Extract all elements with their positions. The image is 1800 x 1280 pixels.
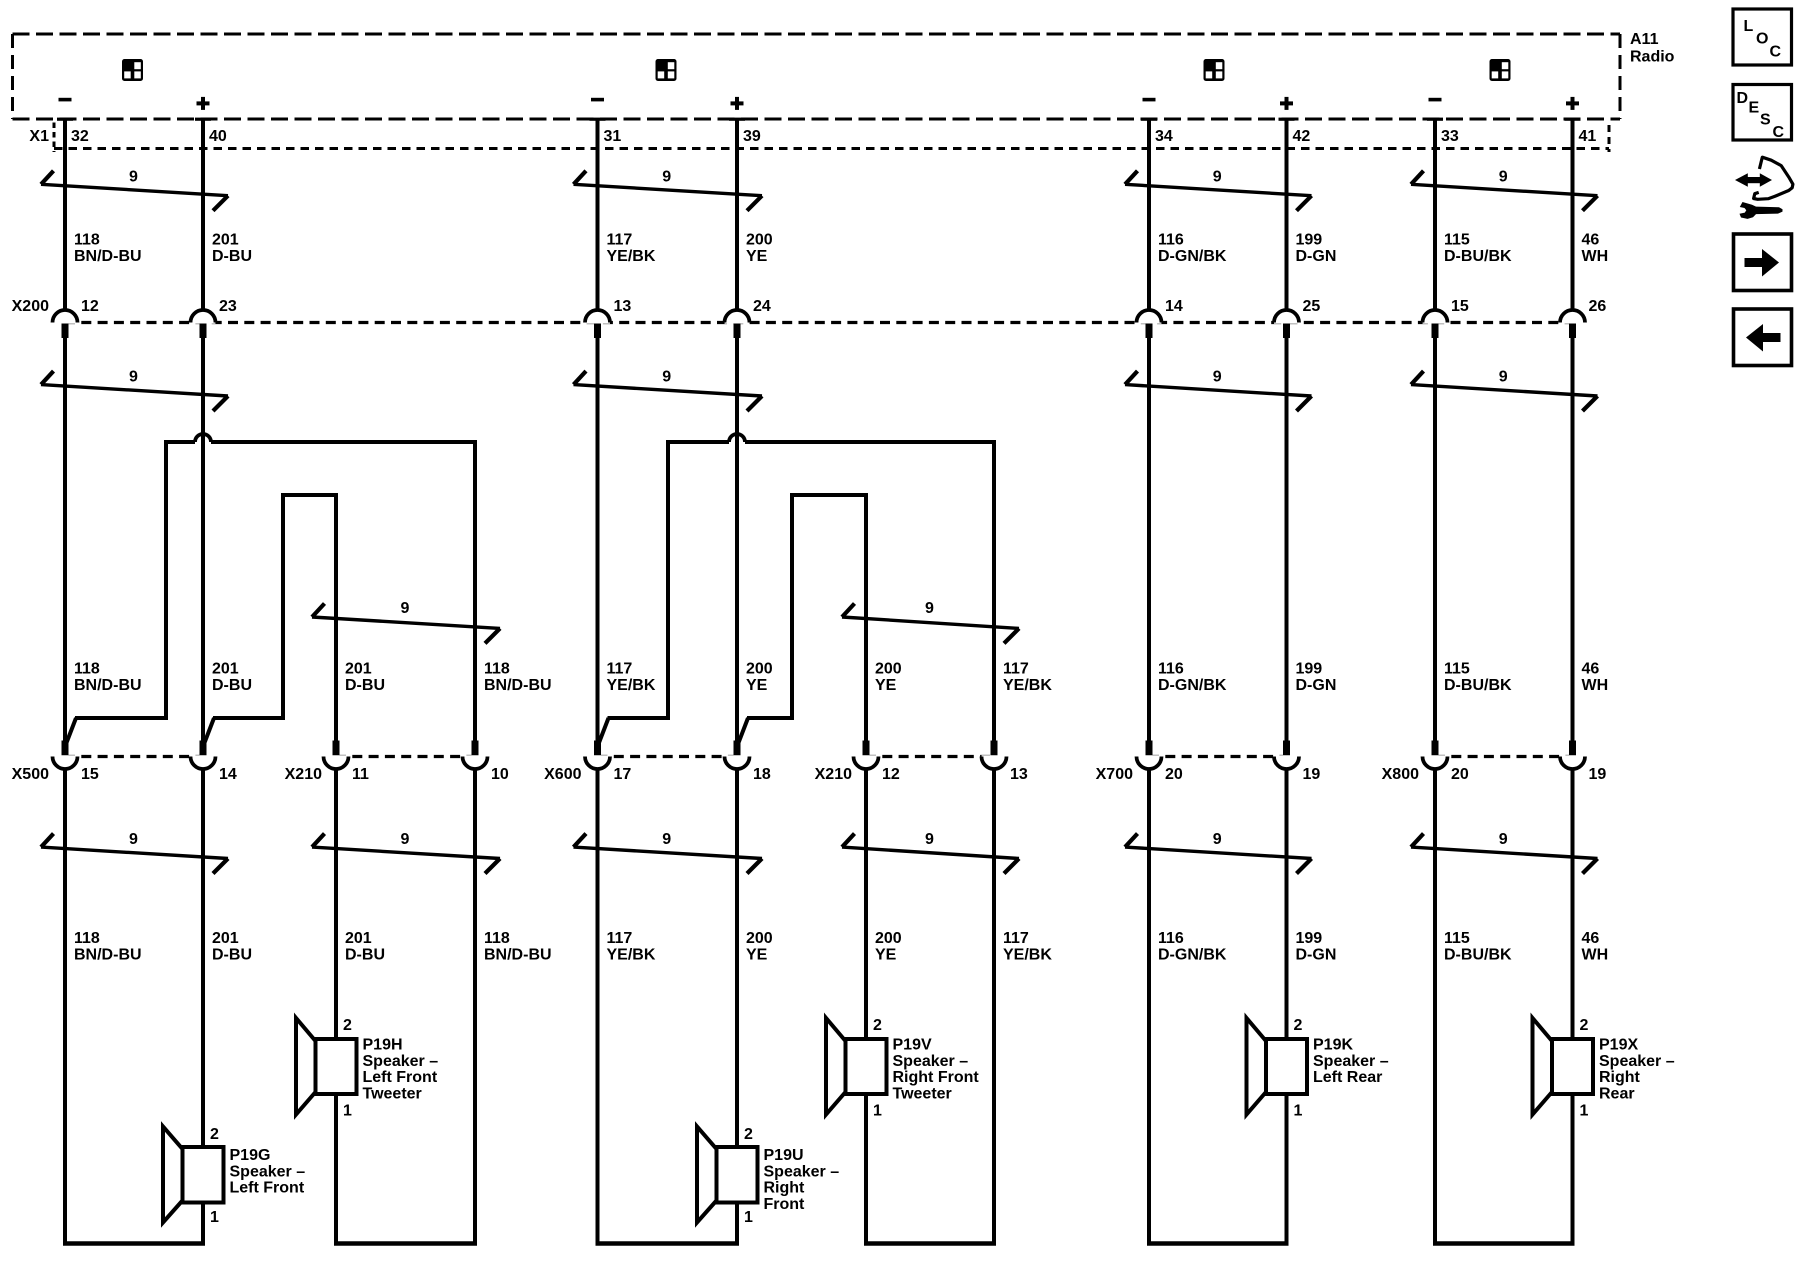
svg-text:117: 117 <box>607 930 633 947</box>
twisted pair symbol 9 (group 2, bottom) <box>574 831 763 874</box>
wire 201 D-BU (below connector, col x=336) <box>334 769 338 1244</box>
X200 pin 13 (terminal arc + pin) <box>585 298 631 338</box>
wire label 200 YE (bottom) <box>746 930 773 964</box>
svg-text:40: 40 <box>209 128 227 145</box>
svg-text:Speaker –: Speaker – <box>893 1053 969 1070</box>
svg-text:P19U: P19U <box>764 1147 804 1164</box>
svg-text:X500: X500 <box>12 766 49 783</box>
X200 pin 12 (terminal arc + pin) <box>53 298 99 338</box>
svg-text:24: 24 <box>753 298 771 315</box>
svg-text:YE/BK: YE/BK <box>1003 677 1052 694</box>
polarity plus group 2 <box>731 97 744 110</box>
svg-text:33: 33 <box>1441 128 1459 145</box>
svg-text:115: 115 <box>1444 232 1470 249</box>
svg-text:Right Front: Right Front <box>893 1069 980 1086</box>
wire 117 YE/BK from X200 to X600-17 <box>596 338 600 741</box>
wire bottom return (group 3) <box>1147 1241 1289 1246</box>
wire 116 D-GN/BK from X1-34 to X200 <box>1147 119 1151 312</box>
svg-text:9: 9 <box>662 831 671 848</box>
svg-text:200: 200 <box>746 661 773 678</box>
wire bottom return (X210 pair group 1) <box>334 1241 477 1246</box>
wire bottom return (X210 pair group 2) <box>864 1241 996 1246</box>
X1 pin 39 <box>729 118 761 145</box>
connector X700 (dotted line) <box>1149 755 1287 758</box>
label X200 <box>12 298 49 315</box>
label X700 <box>1096 766 1133 783</box>
wire label 117 YE/BK (middle) <box>1003 661 1052 695</box>
svg-text:X700: X700 <box>1096 766 1133 783</box>
twisted pair symbol 9 (X210 pair group 2, bottom) <box>842 831 1019 874</box>
svg-text:201: 201 <box>212 930 239 947</box>
svg-text:118: 118 <box>74 930 100 947</box>
svg-text:2: 2 <box>1294 1017 1303 1034</box>
svg-text:Radio: Radio <box>1630 49 1675 66</box>
svg-text:11: 11 <box>352 766 369 783</box>
svg-text:1: 1 <box>1294 1103 1303 1120</box>
twisted pair symbol 9 (X210 branch pair group 1) <box>312 600 500 643</box>
twisted pair symbol 9 (group 4, upper) <box>1411 169 1598 211</box>
svg-text:WH: WH <box>1582 947 1609 964</box>
branch wire 118 BN/D-BU to X210-10 (riser + crossover) <box>66 434 475 744</box>
X800 pin 20 (pin + terminal arc) <box>1423 741 1469 784</box>
svg-text:YE: YE <box>746 947 768 964</box>
svg-text:D-BU: D-BU <box>212 677 252 694</box>
svg-text:9: 9 <box>1213 831 1222 848</box>
wire label 118 BN/D-BU <box>74 232 142 266</box>
polarity plus group 3 <box>1280 97 1293 110</box>
twisted pair symbol 9 (group 1, bottom) <box>41 831 228 874</box>
svg-text:Left Rear: Left Rear <box>1313 1069 1382 1086</box>
X210 pin 10 (pin + terminal arc) <box>463 741 509 784</box>
twisted pair symbol 9 (group 3, upper) <box>1125 169 1312 211</box>
branch wire 200 YE to X210-12 (n-shape) <box>738 493 868 744</box>
svg-text:YE: YE <box>875 677 897 694</box>
svg-text:YE: YE <box>746 677 768 694</box>
X200 pin 23 (terminal arc + pin) <box>191 298 237 338</box>
polarity minus group 1 <box>59 98 72 102</box>
svg-text:P19K: P19K <box>1313 1037 1353 1054</box>
wire 201 D-BU from X200 to X500-14 <box>201 338 205 741</box>
connector X600 (dotted line) <box>598 755 738 758</box>
X1 pin 40 <box>195 118 227 145</box>
svg-text:20: 20 <box>1165 766 1183 783</box>
svg-text:20: 20 <box>1451 766 1469 783</box>
X200 pin 25 (terminal arc + pin) <box>1274 298 1320 338</box>
wire label 201 D-BU (middle) <box>345 661 385 695</box>
wire 115 D-BU/BK (below connector, col x=1435) <box>1433 769 1437 1244</box>
svg-text:200: 200 <box>746 232 773 249</box>
svg-text:15: 15 <box>81 766 99 783</box>
svg-text:E: E <box>1749 100 1760 117</box>
wire label 200 YE (middle) <box>746 661 773 695</box>
wire label 201 D-BU <box>212 232 252 266</box>
wire label 115 D-BU/BK (bottom) <box>1444 930 1512 964</box>
svg-text:2: 2 <box>210 1126 219 1143</box>
polarity plus group 4 <box>1566 97 1579 110</box>
svg-text:X210: X210 <box>285 766 322 783</box>
wire 46 WH from X200 to X800-19 <box>1571 338 1575 741</box>
wire 118 BN/D-BU (below connector, col x=475) <box>473 769 477 1244</box>
polarity minus group 4 <box>1429 98 1442 102</box>
wire 200 YE from X200 to X600-18 <box>735 338 739 741</box>
wire 118 BN/D-BU (below connector, col x=65) <box>63 769 67 1244</box>
svg-text:Tweeter: Tweeter <box>363 1085 422 1102</box>
wire label 200 YE <box>746 232 773 266</box>
wire label 115 D-BU/BK (middle) <box>1444 661 1512 695</box>
speaker quadrant icon group 2 <box>656 59 677 81</box>
svg-text:12: 12 <box>882 766 900 783</box>
svg-text:A11: A11 <box>1630 31 1659 48</box>
svg-text:C: C <box>1770 44 1782 61</box>
wire label 46 WH <box>1582 232 1609 266</box>
wire 200 YE from X1-39 to X200 <box>735 119 739 312</box>
svg-text:BN/D-BU: BN/D-BU <box>74 947 142 964</box>
wire bottom return (group 4) <box>1433 1241 1575 1246</box>
speaker P19U Speaker – Right Front <box>697 1126 839 1226</box>
svg-text:117: 117 <box>1003 661 1029 678</box>
connector X1 (dotted strip) <box>54 123 1609 153</box>
svg-text:P19H: P19H <box>363 1037 403 1054</box>
svg-text:Front: Front <box>764 1196 806 1213</box>
svg-text:200: 200 <box>875 930 902 947</box>
wire 46 WH from X1-41 to X200 <box>1571 119 1575 312</box>
wire 201 D-BU from X1-40 to X200 <box>201 119 205 312</box>
svg-text:2: 2 <box>873 1017 882 1034</box>
svg-text:1: 1 <box>873 1103 882 1120</box>
connector X210 (dotted line) <box>336 755 475 758</box>
X600 pin 17 (pin + terminal arc) <box>585 741 631 784</box>
speaker P19X Speaker – Right Rear <box>1533 1017 1675 1120</box>
svg-text:P19G: P19G <box>230 1147 271 1164</box>
label X210 <box>285 766 322 783</box>
svg-text:D-BU: D-BU <box>345 947 385 964</box>
X1 pin 34 <box>1141 118 1173 145</box>
svg-text:L: L <box>1744 18 1754 35</box>
wire label 118 BN/D-BU (middle) <box>484 661 552 695</box>
wire label 118 BN/D-BU (bottom) <box>484 930 552 964</box>
svg-text:46: 46 <box>1582 930 1600 947</box>
wire 115 D-BU/BK from X200 to X800-20 <box>1433 338 1437 741</box>
label A11 Radio <box>1630 31 1675 66</box>
wire 116 D-GN/BK from X200 to X700-20 <box>1147 338 1151 741</box>
wire label 117 YE/BK (middle) <box>607 661 656 695</box>
svg-text:9: 9 <box>925 600 934 617</box>
wire 118 BN/D-BU from X1-32 to X200 <box>63 119 67 312</box>
svg-text:199: 199 <box>1296 661 1323 678</box>
svg-text:9: 9 <box>925 831 934 848</box>
label X210 <box>815 766 852 783</box>
svg-text:D: D <box>1737 90 1749 107</box>
svg-text:12: 12 <box>81 298 99 315</box>
svg-text:X1: X1 <box>29 128 49 145</box>
svg-text:9: 9 <box>129 369 138 386</box>
svg-text:201: 201 <box>212 661 239 678</box>
svg-text:118: 118 <box>484 930 510 947</box>
icon button arrow left <box>1734 309 1792 366</box>
svg-text:10: 10 <box>491 766 509 783</box>
svg-text:X200: X200 <box>12 298 49 315</box>
X1 pin 33 <box>1427 118 1459 145</box>
svg-text:YE/BK: YE/BK <box>607 677 656 694</box>
twisted pair symbol 9 (group 1, upper) <box>41 169 228 211</box>
component box A11 Radio (dashed outline) <box>13 34 1621 119</box>
speaker quadrant icon group 3 <box>1204 59 1225 81</box>
svg-text:Speaker –: Speaker – <box>764 1163 840 1180</box>
twisted pair symbol 9 (X210 branch pair group 2) <box>842 600 1019 643</box>
wire label 201 D-BU (middle) <box>212 661 252 695</box>
svg-text:26: 26 <box>1589 298 1607 315</box>
svg-text:14: 14 <box>219 766 237 783</box>
wire label 116 D-GN/BK (middle) <box>1158 661 1227 695</box>
svg-text:YE: YE <box>875 947 897 964</box>
connector X500 (dotted line) <box>65 755 203 758</box>
svg-text:YE/BK: YE/BK <box>607 248 656 265</box>
svg-text:D-GN/BK: D-GN/BK <box>1158 947 1227 964</box>
svg-text:Right: Right <box>764 1180 806 1197</box>
X200 pin 24 (terminal arc + pin) <box>725 298 771 338</box>
svg-text:9: 9 <box>1499 169 1508 186</box>
svg-text:9: 9 <box>1499 831 1508 848</box>
svg-text:32: 32 <box>71 128 89 145</box>
svg-text:Tweeter: Tweeter <box>893 1085 952 1102</box>
svg-text:116: 116 <box>1158 930 1184 947</box>
svg-text:9: 9 <box>129 831 138 848</box>
svg-text:9: 9 <box>1499 369 1508 386</box>
icon adjust (double arrow with freehand outline) <box>1735 157 1793 199</box>
svg-text:2: 2 <box>1580 1017 1589 1034</box>
wire bottom return (group 1) <box>63 1241 205 1246</box>
svg-text:18: 18 <box>753 766 771 783</box>
svg-text:201: 201 <box>212 232 239 249</box>
svg-text:2: 2 <box>343 1017 352 1034</box>
twisted pair symbol 9 (group 3, middle) <box>1125 369 1312 412</box>
svg-text:D-BU/BK: D-BU/BK <box>1444 677 1512 694</box>
svg-text:25: 25 <box>1303 298 1321 315</box>
wire 201 D-BU (below connector, col x=203) <box>201 769 205 1244</box>
twisted pair symbol 9 (group 2, upper) <box>574 169 763 211</box>
icon wrench <box>1740 202 1783 219</box>
svg-text:WH: WH <box>1582 677 1609 694</box>
X600 pin 18 (pin + terminal arc) <box>725 741 771 784</box>
icon button LOC <box>1733 9 1792 65</box>
wire label 200 YE (bottom) <box>875 930 902 964</box>
X210 pin 13 (pin + terminal arc) <box>982 741 1028 784</box>
wire label 199 D-GN (middle) <box>1296 661 1337 695</box>
connector X800 (dotted line) <box>1435 755 1573 758</box>
svg-text:117: 117 <box>607 232 633 249</box>
svg-text:200: 200 <box>875 661 902 678</box>
twisted pair symbol 9 (group 4, middle) <box>1411 369 1598 412</box>
wire bottom return (group 2) <box>596 1241 740 1246</box>
wire 115 D-BU/BK from X1-33 to X200 <box>1433 119 1437 312</box>
wire 116 D-GN/BK (below connector, col x=1149) <box>1147 769 1151 1244</box>
X200 pin 14 (terminal arc + pin) <box>1137 298 1183 338</box>
svg-text:118: 118 <box>484 661 510 678</box>
wire label 118 BN/D-BU (middle) <box>74 661 142 695</box>
wire 199 D-GN (below connector, col x=1286.5) <box>1285 769 1289 1244</box>
svg-text:D-BU/BK: D-BU/BK <box>1444 248 1512 265</box>
svg-text:39: 39 <box>743 128 761 145</box>
wire label 118 BN/D-BU (bottom) <box>74 930 142 964</box>
svg-text:YE/BK: YE/BK <box>607 947 656 964</box>
wire label 117 YE/BK (bottom) <box>1003 930 1052 964</box>
svg-text:D-GN: D-GN <box>1296 248 1337 265</box>
svg-text:116: 116 <box>1158 232 1184 249</box>
wire label 46 WH (middle) <box>1582 661 1609 695</box>
svg-text:9: 9 <box>1213 369 1222 386</box>
wire 199 D-GN from X1-42 to X200 <box>1285 119 1289 312</box>
speaker quadrant icon group 1 <box>122 59 143 81</box>
svg-text:117: 117 <box>607 661 633 678</box>
svg-text:Left Front: Left Front <box>230 1180 305 1197</box>
X210 pin 12 (pin + terminal arc) <box>854 741 900 784</box>
connector X200 (dotted line) <box>65 321 1573 324</box>
svg-text:D-BU: D-BU <box>212 248 252 265</box>
svg-text:1: 1 <box>343 1103 352 1120</box>
wire label 46 WH (bottom) <box>1582 930 1609 964</box>
twisted pair symbol 9 (group 1, middle) <box>41 369 228 412</box>
branch wire 117 YE/BK to X210-13 (riser + crossover) <box>599 434 995 744</box>
svg-text:D-GN/BK: D-GN/BK <box>1158 677 1227 694</box>
X700 pin 20 (pin + terminal arc) <box>1137 741 1183 784</box>
svg-text:13: 13 <box>614 298 632 315</box>
svg-text:9: 9 <box>129 169 138 186</box>
svg-text:BN/D-BU: BN/D-BU <box>74 248 142 265</box>
wire label 201 D-BU (bottom) <box>212 930 252 964</box>
svg-text:201: 201 <box>345 661 372 678</box>
X1 pin 42 <box>1279 118 1311 145</box>
wire label 115 D-BU/BK <box>1444 232 1512 266</box>
wire label 117 YE/BK (bottom) <box>607 930 656 964</box>
svg-text:41: 41 <box>1579 128 1597 145</box>
svg-text:199: 199 <box>1296 930 1323 947</box>
polarity minus group 3 <box>1143 98 1156 102</box>
svg-text:Left Front: Left Front <box>363 1069 438 1086</box>
svg-text:Speaker –: Speaker – <box>1313 1053 1389 1070</box>
wire label 116 D-GN/BK (bottom) <box>1158 930 1227 964</box>
X500 pin 14 (pin + terminal arc) <box>191 741 237 784</box>
svg-text:42: 42 <box>1293 128 1311 145</box>
svg-text:BN/D-BU: BN/D-BU <box>74 677 142 694</box>
svg-text:9: 9 <box>662 169 671 186</box>
speaker quadrant icon group 4 <box>1490 59 1511 81</box>
svg-text:1: 1 <box>1580 1103 1589 1120</box>
svg-text:118: 118 <box>74 661 100 678</box>
svg-text:D-GN/BK: D-GN/BK <box>1158 248 1227 265</box>
svg-text:200: 200 <box>746 930 773 947</box>
svg-text:1: 1 <box>210 1209 219 1226</box>
svg-text:115: 115 <box>1444 930 1470 947</box>
label X600 <box>544 766 581 783</box>
wire 117 YE/BK from X1-31 to X200 <box>596 119 600 312</box>
svg-text:118: 118 <box>74 232 100 249</box>
svg-text:X600: X600 <box>544 766 581 783</box>
svg-text:116: 116 <box>1158 661 1184 678</box>
twisted pair symbol 9 (X210 pair group 1, bottom) <box>312 831 500 874</box>
svg-text:1: 1 <box>744 1209 753 1226</box>
X200 pin 15 (terminal arc + pin) <box>1423 298 1469 338</box>
label X500 <box>12 766 49 783</box>
wire 200 YE (below connector, col x=866) <box>864 769 868 1244</box>
branch wire 201 D-BU to X210-11 (n-shape) <box>204 493 338 744</box>
connector X210 (dotted line) <box>866 755 994 758</box>
svg-text:O: O <box>1756 31 1768 48</box>
polarity minus group 2 <box>591 98 604 102</box>
svg-text:34: 34 <box>1155 128 1173 145</box>
svg-text:D-BU: D-BU <box>345 677 385 694</box>
wire 118 BN/D-BU from X200 to X500-15 <box>63 338 67 741</box>
svg-text:117: 117 <box>1003 930 1029 947</box>
wire 46 WH (below connector, col x=1572.5) <box>1571 769 1575 1244</box>
svg-text:Speaker –: Speaker – <box>1599 1053 1675 1070</box>
label X800 <box>1382 766 1419 783</box>
svg-text:X210: X210 <box>815 766 852 783</box>
wire 199 D-GN from X200 to X700-19 <box>1285 338 1289 741</box>
svg-text:D-GN: D-GN <box>1296 677 1337 694</box>
X210 pin 11 (pin + terminal arc) <box>324 741 370 784</box>
wire label 201 D-BU (bottom) <box>345 930 385 964</box>
speaker P19H Speaker – Left Front Tweeter <box>296 1017 438 1120</box>
svg-text:D-BU/BK: D-BU/BK <box>1444 947 1512 964</box>
wire 117 YE/BK (below connector, col x=597.5) <box>596 769 600 1244</box>
speaker P19G Speaker – Left Front <box>163 1126 305 1226</box>
svg-text:X800: X800 <box>1382 766 1419 783</box>
svg-text:Speaker –: Speaker – <box>363 1053 439 1070</box>
svg-text:19: 19 <box>1303 766 1321 783</box>
twisted pair symbol 9 (group 2, middle) <box>574 369 763 412</box>
twisted pair symbol 9 (group 4, bottom) <box>1411 831 1598 874</box>
svg-text:199: 199 <box>1296 232 1323 249</box>
svg-text:Speaker –: Speaker – <box>230 1163 306 1180</box>
svg-text:9: 9 <box>1213 169 1222 186</box>
wire label 199 D-GN <box>1296 232 1337 266</box>
polarity plus group 1 <box>197 97 210 110</box>
svg-text:15: 15 <box>1451 298 1469 315</box>
wire label 199 D-GN (bottom) <box>1296 930 1337 964</box>
X200 pin 26 (terminal arc + pin) <box>1560 298 1606 338</box>
icon button DESC <box>1733 85 1792 142</box>
label X1 <box>29 128 49 145</box>
icon button arrow right <box>1734 234 1792 291</box>
X500 pin 15 (pin + terminal arc) <box>53 741 99 784</box>
svg-text:S: S <box>1760 111 1771 128</box>
svg-text:Rear: Rear <box>1599 1085 1635 1102</box>
speaker P19V Speaker – Right Front Tweeter <box>826 1017 979 1120</box>
svg-text:D-BU: D-BU <box>212 947 252 964</box>
wire label 116 D-GN/BK <box>1158 232 1227 266</box>
wire label 200 YE (middle) <box>875 661 902 695</box>
svg-text:D-GN: D-GN <box>1296 947 1337 964</box>
X700 pin 19 (pin + terminal arc) <box>1274 741 1320 784</box>
svg-text:YE/BK: YE/BK <box>1003 947 1052 964</box>
svg-text:YE: YE <box>746 248 768 265</box>
svg-text:P19V: P19V <box>893 1037 932 1054</box>
svg-text:46: 46 <box>1582 661 1600 678</box>
svg-text:9: 9 <box>401 831 410 848</box>
wire 200 YE (below connector, col x=737) <box>735 769 739 1244</box>
svg-text:13: 13 <box>1010 766 1028 783</box>
svg-text:23: 23 <box>219 298 237 315</box>
svg-text:WH: WH <box>1582 248 1609 265</box>
X1 pin 31 <box>590 118 622 145</box>
svg-text:2: 2 <box>744 1126 753 1143</box>
svg-text:201: 201 <box>345 930 372 947</box>
svg-text:17: 17 <box>614 766 632 783</box>
svg-text:BN/D-BU: BN/D-BU <box>484 947 552 964</box>
twisted pair symbol 9 (group 3, bottom) <box>1125 831 1312 874</box>
svg-text:14: 14 <box>1165 298 1183 315</box>
wire 117 YE/BK (below connector, col x=994) <box>992 769 996 1244</box>
